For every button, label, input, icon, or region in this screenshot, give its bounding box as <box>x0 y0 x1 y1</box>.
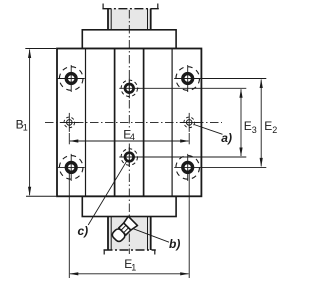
dimension E1 arrow left <box>69 272 78 275</box>
block column line 4 <box>171 49 173 197</box>
rail top left chamfer line <box>110 9 112 30</box>
rail top break line <box>102 8 158 10</box>
dimension E2 line <box>260 80 262 167</box>
dimension E4 extension right <box>188 133 190 144</box>
dimension E1 extension right <box>188 170 190 279</box>
callout a leader <box>194 125 223 135</box>
svg-text:4: 4 <box>130 132 135 142</box>
dimension E4 extension left <box>68 133 70 144</box>
dimension E1 arrow right <box>180 272 189 275</box>
rail bottom break tick right <box>154 250 156 255</box>
mounting hole top-left <box>58 65 85 92</box>
dimension E1 extension left <box>68 170 70 279</box>
block column line 1 <box>85 49 87 197</box>
rail top break tick left <box>102 4 104 9</box>
dimension B1 extension line top <box>25 48 56 50</box>
callout b leader <box>134 229 170 242</box>
svg-text:E: E <box>264 119 272 133</box>
dimension E1 line <box>70 273 189 275</box>
dimension E2 arrow up <box>260 79 263 88</box>
rail top segment gray fill <box>108 9 151 30</box>
rail bottom break tick left <box>103 250 105 255</box>
dimension E4 line <box>70 140 189 142</box>
lube hole middle-left <box>60 113 79 132</box>
dimension E3 extension top <box>137 87 246 89</box>
svg-text:1: 1 <box>131 262 136 272</box>
dimension B1 extension line bottom <box>26 195 56 197</box>
carriage main block <box>57 49 201 197</box>
rail top break tick right <box>157 4 159 9</box>
mounting hole bottom-left <box>58 154 85 181</box>
svg-text:3: 3 <box>252 125 257 135</box>
rail bottom segment gray fill <box>108 217 151 251</box>
dimension E3 extension bottom <box>137 156 246 158</box>
rail bottom left chamfer line <box>110 217 112 251</box>
bottom end plate <box>82 196 176 216</box>
rail top right chamfer line <box>147 9 149 30</box>
rail bottom right chamfer line <box>147 217 149 251</box>
svg-text:E: E <box>244 119 252 133</box>
svg-text:2: 2 <box>272 125 277 135</box>
dimension B1 arrow up <box>28 49 31 58</box>
svg-text:b): b) <box>169 237 180 251</box>
svg-text:a): a) <box>221 131 232 145</box>
rail bottom right outer edge <box>150 217 152 251</box>
dimension E2 extension top <box>201 78 267 80</box>
block column line 3 <box>143 49 145 197</box>
dimension E4 arrow right <box>180 139 189 142</box>
rail bottom break line <box>104 249 156 251</box>
rail top left outer edge <box>107 9 109 30</box>
dimension E3 arrow up <box>239 89 242 98</box>
vertical centerline <box>128 10 130 128</box>
callout c leader <box>88 160 127 225</box>
mounting hole bottom-right <box>174 154 201 181</box>
svg-text:c): c) <box>78 224 89 238</box>
mounting hole top-right <box>174 65 201 92</box>
top end plate <box>82 30 176 49</box>
dimension B1 arrow down <box>28 187 31 196</box>
svg-text:1: 1 <box>23 123 28 133</box>
block column line 2 <box>114 49 116 197</box>
rail top right outer edge <box>150 9 152 30</box>
dimension E3 line <box>240 89 242 156</box>
dimension E4 arrow left <box>69 139 78 142</box>
dimension E3 arrow down <box>239 148 242 157</box>
dimension E2 arrow down <box>260 158 263 167</box>
dimension B1 line <box>29 50 31 196</box>
lube hole middle-right <box>180 113 199 132</box>
dimension E2 extension bottom <box>201 166 267 168</box>
rail bottom left outer edge <box>107 217 109 251</box>
horizontal centerline <box>45 121 222 123</box>
threaded hole top-center <box>119 78 139 98</box>
threaded hole bottom-center <box>119 147 139 167</box>
grease nipple b <box>110 216 137 243</box>
